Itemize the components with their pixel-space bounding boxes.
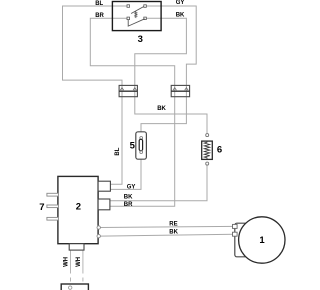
wire WH left from unit 2 bottom stub down [70,251,72,274]
switch 3 terminal top-right [144,5,147,8]
wire BR from switch 3 lower-left to connector B left pin [90,18,174,85]
unit 2 bottom stub [69,244,84,250]
svg-text:BR: BR [124,202,133,208]
bottom connector terminal circle [69,286,72,289]
resistor 6 body [202,141,213,159]
bottom connector block (cut off) [61,284,88,290]
unit 2 body [58,176,98,243]
horn 1 body circle [239,217,285,263]
svg-text:2: 2 [76,201,81,212]
svg-text:7: 7 [39,202,44,213]
wire GY from switch 3 upper-right to connector B right pin then to fuse 5 top [141,6,196,132]
svg-text:BL: BL [95,1,103,7]
fuse 5 body [136,132,147,159]
unit 2 right stub 1 [98,181,110,191]
unit 2 left stub 1 [47,193,59,196]
horn 1 terminal lower [233,232,238,236]
switch 3 terminal bottom-left [127,17,130,20]
connector B divider [171,90,189,92]
switch 3 terminal bottom-right [144,17,147,20]
connector A divider [119,90,137,92]
svg-text:BR: BR [95,13,104,19]
switch 3 box [112,2,161,31]
connector B pin chevron right [185,88,188,91]
fuse 5 top cap circle [140,137,143,140]
switch 3 mechanical link zigzag [135,11,137,18]
wire RE from unit 2 to horn 1 [100,226,234,227]
connector A pin chevron left [120,88,123,91]
switch 3 bottom blade pivot wire [128,19,145,26]
svg-text:WH: WH [64,257,70,267]
unit 2 left stub 2 [47,205,59,208]
svg-text:BK: BK [169,229,178,235]
wire BK from unit 2 to horn 1 [100,234,234,236]
svg-text:5: 5 [130,141,136,152]
connector A body [119,85,137,96]
connector B pin chevron left [173,88,176,91]
svg-text:BK: BK [157,106,166,112]
resistor 6 bottom terminal circle [206,162,209,165]
wire BK from resistor 6 bottom to unit 2 stub 2 [110,165,207,201]
switch 3 top blade [131,7,144,14]
switch 3 terminal top-left [127,5,130,8]
connector A pin chevron right [133,88,136,91]
svg-text:6: 6 [217,144,222,155]
fuse 5 bottom cap circle [140,151,143,154]
svg-text:1: 1 [259,235,265,246]
svg-text:BK: BK [124,195,133,201]
wire GY from fuse 5 bottom to unit 2 stub 1 [110,159,141,189]
unit 2 terminal circle BK [97,234,100,237]
svg-text:3: 3 [138,34,143,45]
svg-text:RE: RE [169,222,177,228]
wire BR from connector B left pin down to unit 2 stub 2 [110,85,175,206]
svg-text:BL: BL [115,147,121,155]
resistor 6 top terminal circle [206,134,209,137]
horn 1 bracket [235,223,251,257]
unit 2 left stub 3 [47,217,59,220]
wire WH right from unit 2 bottom stub down [82,251,84,274]
svg-text:GY: GY [127,185,136,191]
wire BL from connector A left pin down to unit 2 stub 1 [110,85,122,184]
horn 1 terminal upper [233,224,238,228]
wire BL from switch 3 left to connector A left pin [63,6,127,85]
svg-text:GY: GY [176,0,185,6]
unit 2 terminal circle RE [97,226,100,229]
wire BK from switch 3 lower-right to connector A right pin then to resistor 6 top [135,18,207,133]
svg-text:BK: BK [176,12,185,18]
resistor 6 zigzag element [204,141,209,159]
svg-text:WH: WH [76,257,82,267]
unit 2 right stub 2 [98,199,110,210]
fuse 5 element [139,139,142,150]
connector B body [171,85,189,96]
